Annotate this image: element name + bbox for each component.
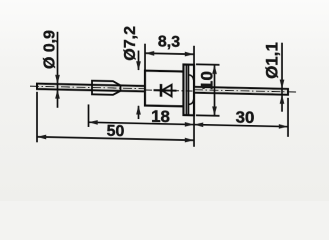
diode symbol cathode bar xyxy=(160,84,163,97)
dimension 50 xyxy=(37,92,194,146)
svg-text:18: 18 xyxy=(151,107,170,126)
flange inner line 1 xyxy=(185,65,187,114)
flange inner line 2 xyxy=(188,65,190,114)
dimension Ø7,2 xyxy=(136,50,141,119)
dimension Ø0,9 xyxy=(55,32,60,108)
body (case Ø7,2) xyxy=(145,71,184,107)
svg-text:Ø 0,9: Ø 0,9 xyxy=(42,30,59,70)
svg-text:8,3: 8,3 xyxy=(158,33,180,50)
dimension 18 and 30 chain line xyxy=(89,93,289,148)
right lead Ø1,1 xyxy=(194,87,288,95)
svg-text:30: 30 xyxy=(236,108,255,127)
left lead Ø0,9 xyxy=(37,84,145,92)
dome arc bottom xyxy=(189,99,194,104)
svg-text:50: 50 xyxy=(107,123,125,140)
flange (Ø10) xyxy=(184,65,195,116)
dimension Ø1,1 xyxy=(280,43,285,112)
crimp (pinch tube) xyxy=(92,81,121,95)
dome arc top xyxy=(189,75,194,80)
diode symbol triangle xyxy=(162,85,172,97)
diode symbol lead line xyxy=(154,89,177,92)
svg-text:10: 10 xyxy=(197,71,216,90)
dimension 8,3 xyxy=(145,44,194,71)
svg-text:Ø1,1: Ø1,1 xyxy=(263,42,282,79)
dimension 10 xyxy=(196,64,220,116)
svg-text:Ø7,2: Ø7,2 xyxy=(122,26,139,61)
axis centerline xyxy=(30,86,145,89)
